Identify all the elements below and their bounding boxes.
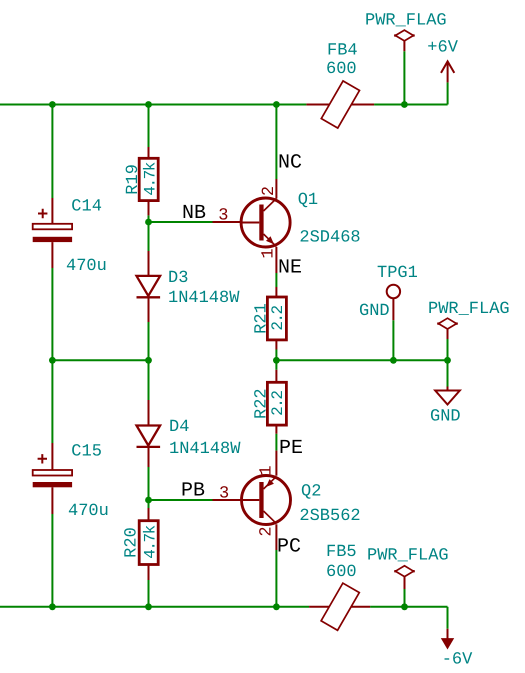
svg-text:FB5: FB5 [326,543,357,562]
svg-text:FB4: FB4 [327,42,358,61]
svg-text:NB: NB [182,202,206,225]
svg-text:PC: PC [277,536,301,559]
svg-text:+6V: +6V [427,39,458,58]
svg-text:1N4148W: 1N4148W [169,440,241,459]
svg-text:R19: R19 [124,164,143,195]
svg-text:PWR_FLAG: PWR_FLAG [365,12,447,31]
svg-text:NE: NE [278,257,302,280]
svg-text:4.7k: 4.7k [142,525,160,558]
svg-text:3: 3 [219,484,229,503]
svg-text:PWR_FLAG: PWR_FLAG [367,547,449,566]
svg-text:2SD468: 2SD468 [299,229,360,248]
svg-text:R20: R20 [123,527,142,558]
svg-text:TPG1: TPG1 [377,264,418,283]
svg-text:2.2: 2.2 [269,391,287,416]
svg-text:470u: 470u [68,502,109,521]
svg-text:2: 2 [258,526,277,536]
svg-text:GND: GND [430,408,461,427]
svg-text:C14: C14 [71,198,102,217]
svg-text:1: 1 [258,465,277,475]
svg-text:Q1: Q1 [298,191,318,210]
svg-text:2.2: 2.2 [269,305,287,330]
svg-text:1: 1 [260,248,279,258]
svg-text:NC: NC [278,152,302,175]
svg-text:600: 600 [326,60,357,79]
svg-text:GND: GND [359,302,390,321]
svg-text:4.7k: 4.7k [142,162,160,195]
svg-text:600: 600 [326,563,357,582]
svg-text:C15: C15 [71,443,102,462]
svg-text:470u: 470u [66,257,107,276]
svg-text:Q2: Q2 [301,483,321,502]
svg-text:PWR_FLAG: PWR_FLAG [428,300,510,319]
svg-text:2: 2 [260,186,279,196]
svg-text:D4: D4 [169,418,189,437]
svg-text:2SB562: 2SB562 [299,507,360,526]
svg-text:PE: PE [279,437,303,460]
svg-text:-6V: -6V [442,651,473,670]
svg-text:1N4148W: 1N4148W [168,289,240,308]
svg-text:PB: PB [181,480,205,503]
svg-text:3: 3 [218,207,228,226]
svg-text:D3: D3 [168,269,188,288]
